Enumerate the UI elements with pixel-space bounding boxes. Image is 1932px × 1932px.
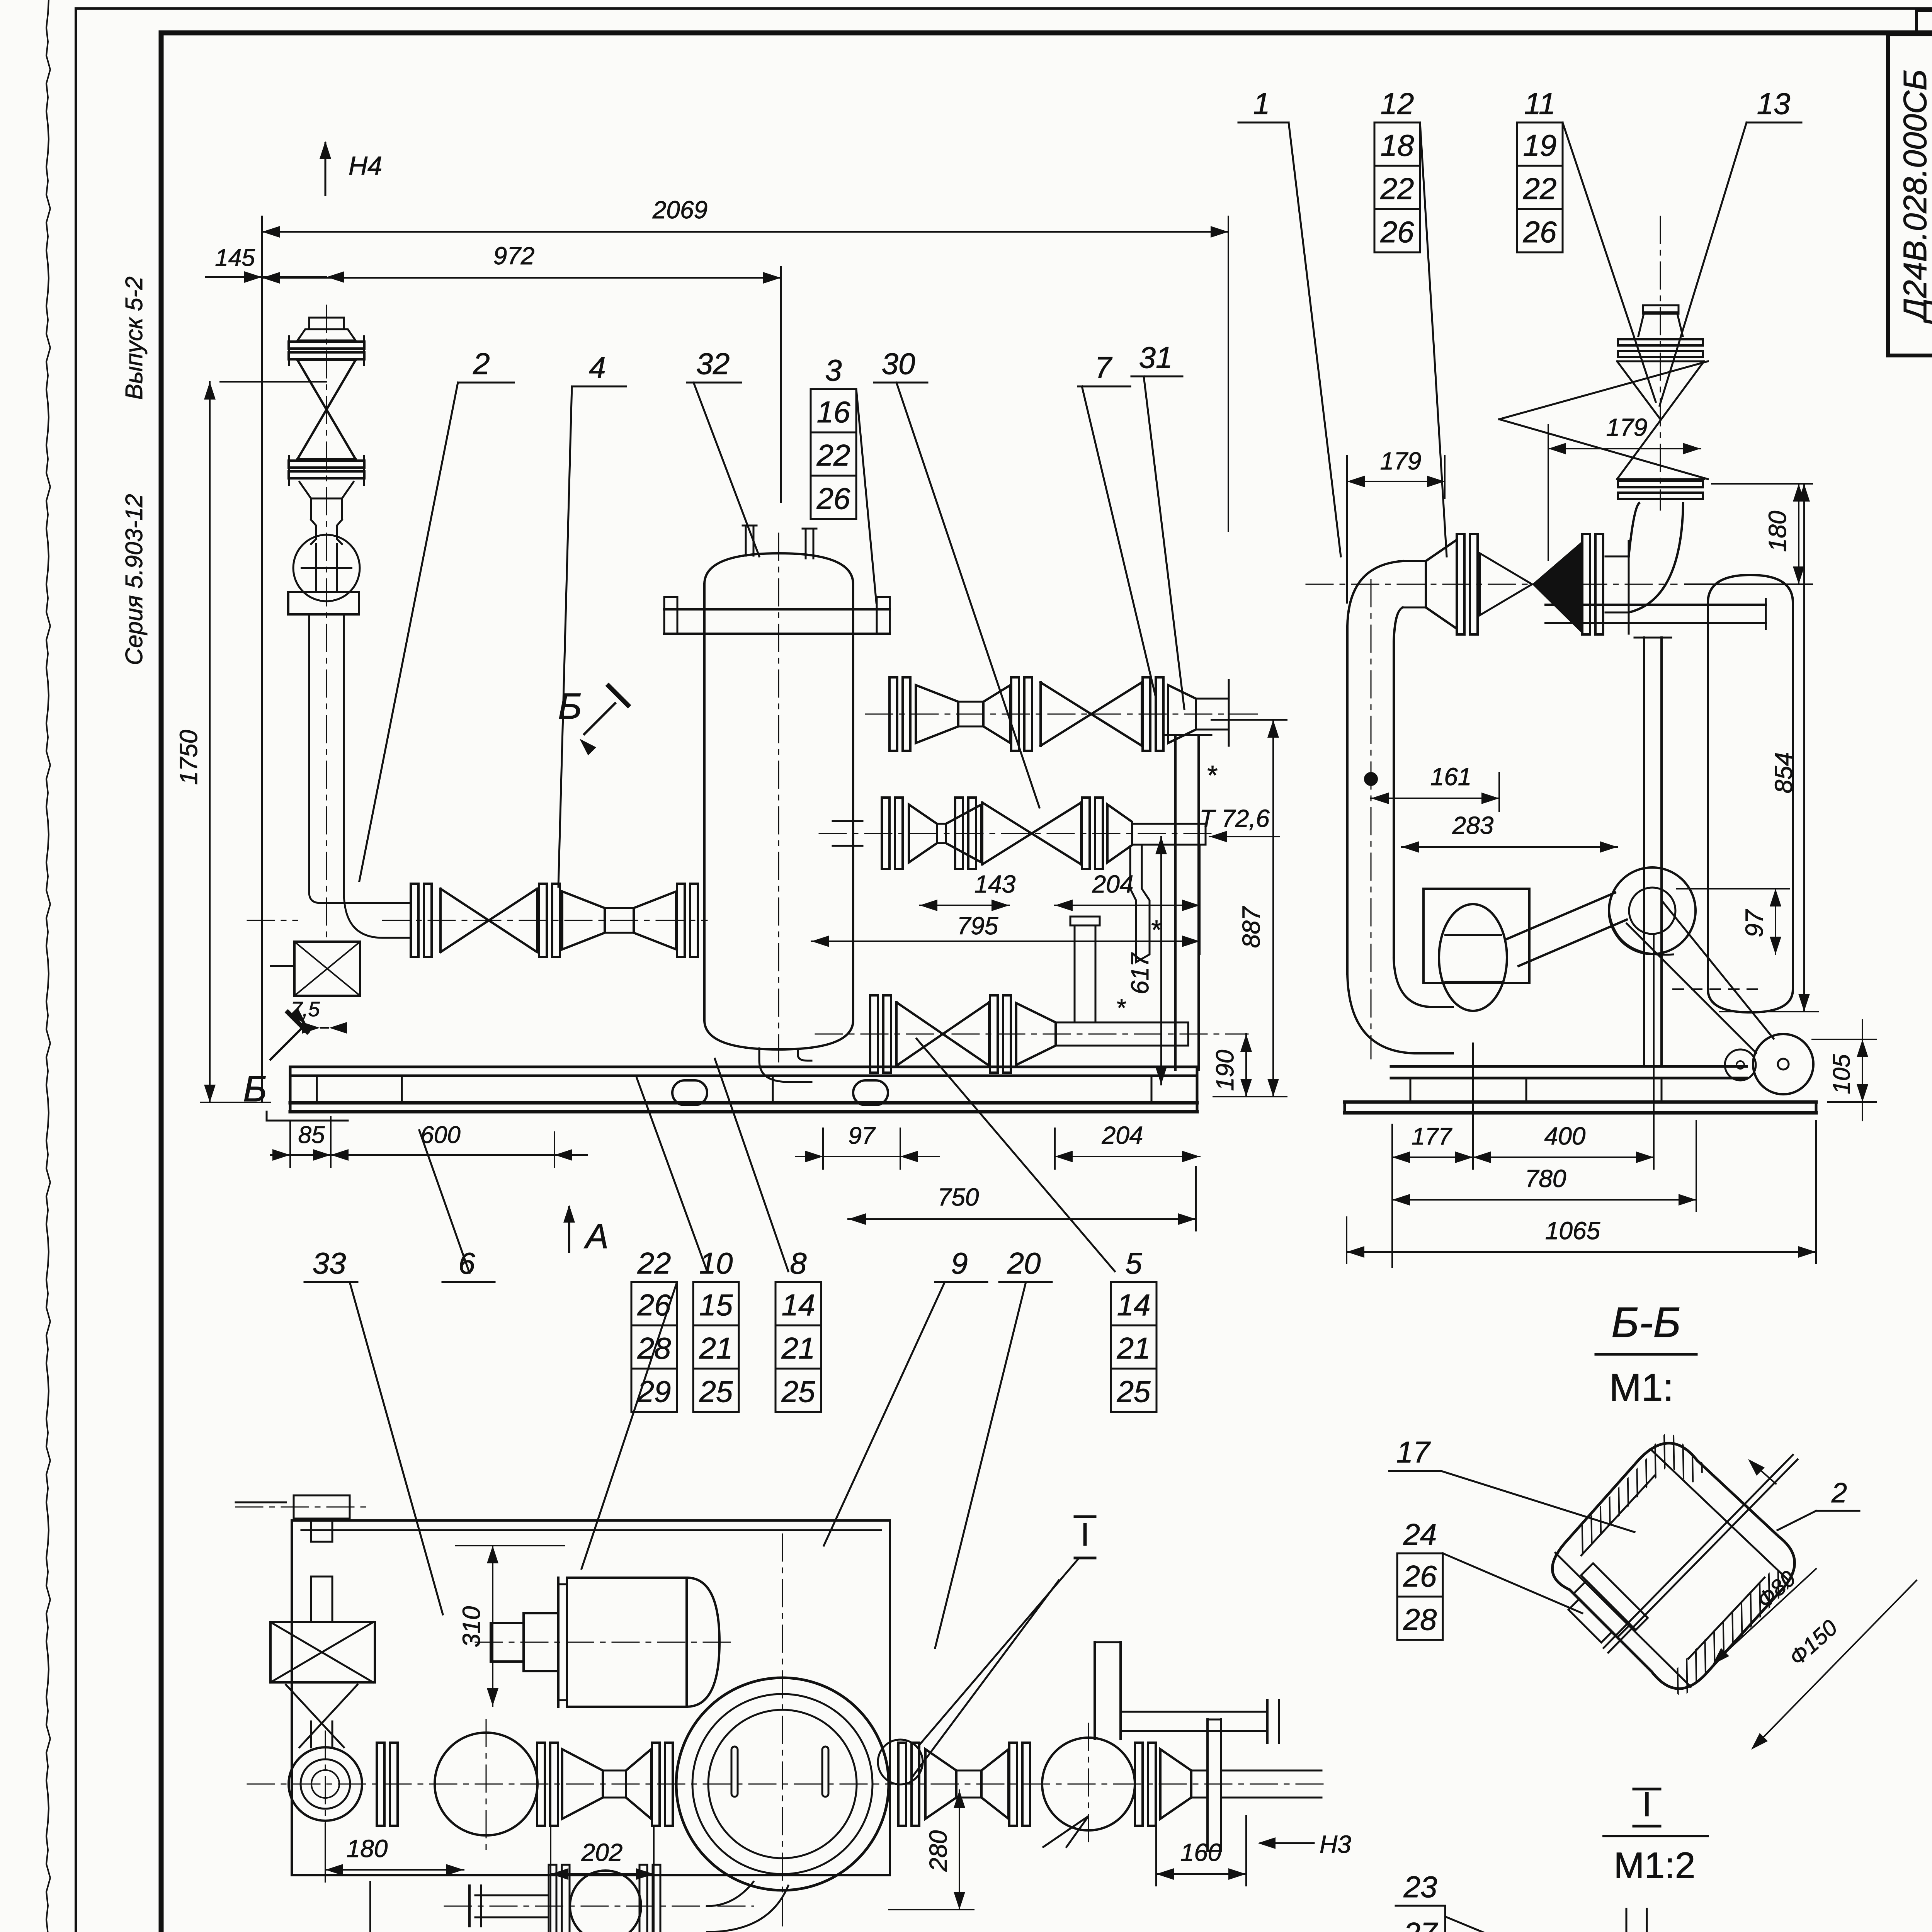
dim 795	[811, 846, 1200, 954]
dim 310 plan	[456, 1546, 564, 1706]
svg-text:Б-Б: Б-Б	[1611, 1299, 1681, 1346]
dim 160	[1156, 1816, 1246, 1886]
svg-text:12: 12	[1381, 87, 1414, 121]
callout 33	[304, 1246, 443, 1614]
svg-text:25: 25	[699, 1374, 733, 1408]
callout 1	[1238, 87, 1341, 556]
callout 17	[1389, 1435, 1634, 1532]
svg-text:161: 161	[1430, 763, 1472, 791]
section arrow B lower	[243, 1007, 307, 1109]
svg-text:*: *	[1206, 760, 1218, 790]
svg-text:Б: Б	[558, 686, 582, 727]
svg-text:22: 22	[1380, 172, 1414, 206]
svg-text:85: 85	[298, 1122, 325, 1148]
svg-text:17: 17	[1396, 1435, 1431, 1469]
svg-text:1: 1	[1253, 87, 1270, 121]
bottom run valve 5	[815, 917, 1248, 1073]
svg-text:177: 177	[1412, 1123, 1452, 1150]
svg-text:283: 283	[1452, 811, 1494, 839]
base frame view1	[267, 1067, 1197, 1121]
svg-text:2: 2	[473, 347, 490, 381]
view2 U loop pipe	[1347, 540, 1457, 1059]
scan edge left wavy line	[46, 0, 50, 1932]
sheet margin line left	[75, 9, 77, 1932]
svg-text:29: 29	[637, 1374, 671, 1408]
plan inlet flange	[247, 1731, 1325, 1832]
svg-text:26: 26	[816, 481, 850, 515]
svg-text:5: 5	[1125, 1246, 1142, 1280]
svg-text:2: 2	[1831, 1478, 1847, 1509]
callout 11 stack	[1517, 87, 1656, 402]
svg-text:25: 25	[781, 1374, 815, 1408]
dim 190	[1211, 1034, 1252, 1097]
svg-text:Т 72,6: Т 72,6	[1199, 804, 1270, 832]
plan drain branch valve 20	[444, 1865, 788, 1932]
main inlet run valve 2	[383, 884, 707, 957]
svg-text:14: 14	[1117, 1288, 1151, 1322]
svg-text:М1:2: М1:2	[1614, 1845, 1695, 1886]
dim 179 right	[1548, 413, 1701, 560]
callout 2	[359, 347, 514, 881]
svg-text:32: 32	[696, 347, 730, 381]
plan sphere valve 1	[377, 1719, 673, 1851]
svg-text:160: 160	[1180, 1838, 1222, 1866]
H3 arrow	[1258, 1830, 1351, 1858]
dim 972	[262, 242, 781, 502]
svg-text:204: 204	[1092, 870, 1134, 898]
svg-text:24: 24	[1403, 1517, 1437, 1551]
dim 7.5	[291, 998, 347, 1034]
svg-text:887: 887	[1237, 906, 1265, 948]
svg-text:19: 19	[1523, 128, 1557, 162]
svg-text:27: 27	[1403, 1916, 1438, 1932]
svg-text:310: 310	[457, 1606, 485, 1647]
svg-text:23: 23	[1403, 1870, 1437, 1904]
middle run valve 3 and 30	[819, 798, 1213, 962]
plan motor	[475, 1578, 734, 1707]
svg-text:Выпуск 5-2: Выпуск 5-2	[121, 276, 148, 400]
svg-text:97: 97	[849, 1122, 876, 1149]
detail I heading	[1604, 1785, 1708, 1886]
view2 motor and belt	[1627, 900, 1813, 1094]
plan top right branch	[1078, 1642, 1279, 1743]
svg-text:7: 7	[1095, 350, 1112, 384]
svg-text:8: 8	[790, 1246, 806, 1280]
svg-text:97: 97	[1740, 909, 1768, 937]
plan right run valve 5	[898, 1719, 1321, 1851]
view arrow A	[563, 1205, 609, 1256]
svg-text:26: 26	[1523, 215, 1557, 249]
svg-text:21: 21	[781, 1331, 815, 1365]
dim 283	[1401, 811, 1617, 853]
callout 5 stack	[917, 1039, 1156, 1412]
dim T72.6	[1199, 804, 1279, 842]
dim 750	[848, 1167, 1196, 1231]
inlet column with valve 33	[288, 305, 411, 939]
dim 177	[1392, 1043, 1473, 1267]
svg-text:26: 26	[1380, 215, 1414, 249]
plan big filter circle 9	[676, 1534, 889, 1932]
svg-text:600: 600	[420, 1122, 460, 1148]
svg-text:190: 190	[1211, 1049, 1239, 1091]
svg-text:22: 22	[816, 438, 850, 472]
callout 31	[1131, 340, 1184, 709]
dim 1065	[1347, 1121, 1816, 1264]
dim 180 plan	[325, 1824, 464, 1882]
callout 24 stack	[1397, 1517, 1582, 1640]
svg-text:Н3: Н3	[1320, 1830, 1351, 1858]
dim 85-600	[270, 1117, 587, 1167]
dim 97 lower	[796, 1122, 939, 1169]
dim 202	[551, 1828, 654, 1932]
svg-text:14: 14	[782, 1288, 815, 1322]
plan left valve 33	[236, 1495, 375, 1747]
dim 854	[1719, 484, 1818, 1012]
sheet margin line top	[76, 7, 1932, 10]
top-right stamp box	[1888, 34, 1932, 355]
svg-text:25: 25	[1117, 1374, 1151, 1408]
svg-text:143: 143	[975, 870, 1016, 898]
view2 pump	[1423, 867, 1696, 1011]
series label vypusk	[121, 276, 148, 400]
svg-text:16: 16	[817, 395, 850, 429]
svg-text:179: 179	[1606, 413, 1648, 441]
svg-text:Н4: Н4	[349, 151, 382, 180]
svg-text:11: 11	[1524, 87, 1556, 121]
dim 780	[1392, 1121, 1696, 1211]
svg-text:Д24В.028.000СБ: Д24В.028.000СБ	[1897, 70, 1932, 324]
dim 143	[920, 870, 1016, 911]
view2 stand column	[1634, 638, 1671, 1066]
dim 105	[1812, 1020, 1876, 1121]
svg-text:280: 280	[924, 1830, 952, 1872]
svg-text:179: 179	[1380, 447, 1422, 475]
upper discharge run valve 30	[866, 677, 1264, 790]
svg-text:3: 3	[825, 353, 842, 387]
dim 887	[1211, 720, 1287, 1097]
view2 tank	[1546, 575, 1793, 1012]
svg-text:22: 22	[637, 1246, 671, 1280]
view2 centerline	[1660, 216, 1661, 510]
svg-text:18: 18	[1381, 128, 1414, 162]
svg-text:9: 9	[951, 1246, 968, 1280]
svg-text:145: 145	[215, 245, 255, 271]
section B-B f80	[1713, 1566, 1816, 1665]
svg-text:180: 180	[1764, 510, 1791, 552]
corner box sheet number	[1917, 10, 1932, 34]
svg-text:972: 972	[493, 242, 535, 270]
svg-text:15: 15	[699, 1288, 733, 1322]
dim 204 mid	[1055, 870, 1200, 911]
view2 elbow	[1629, 503, 1683, 612]
svg-text:А: А	[583, 1217, 609, 1256]
dim 204 lower	[1055, 1121, 1200, 1169]
svg-text:4: 4	[589, 350, 605, 384]
dim 161	[1371, 763, 1499, 811]
callout 9	[824, 1246, 987, 1546]
detail I bolt joint	[1519, 1909, 1801, 1932]
callout 13	[1660, 87, 1801, 406]
svg-text:180: 180	[347, 1835, 388, 1862]
callout 12 stack	[1374, 87, 1447, 556]
callout 6	[419, 1130, 495, 1282]
right support column view1	[1163, 735, 1211, 1070]
callout 10 stack	[637, 1078, 739, 1412]
svg-text:1065: 1065	[1545, 1217, 1600, 1245]
svg-text:21: 21	[699, 1331, 733, 1365]
section B-B fitting	[1512, 1344, 1885, 1719]
view2 black valve 12	[1306, 534, 1677, 634]
callout 20	[935, 1246, 1052, 1648]
svg-text:26: 26	[1403, 1559, 1437, 1593]
callout 4	[558, 350, 626, 887]
dim 179 left	[1347, 447, 1445, 603]
svg-text:I: I	[1642, 1785, 1651, 1824]
section heading B-B	[1596, 1299, 1696, 1409]
svg-text:2069: 2069	[652, 196, 707, 224]
svg-text:28: 28	[1403, 1602, 1437, 1636]
section arrow B upper	[558, 686, 628, 755]
vessel 32 filter	[664, 526, 890, 1082]
support box under column	[247, 920, 360, 996]
H4 flow arrow	[320, 141, 382, 195]
svg-text:780: 780	[1525, 1165, 1566, 1192]
svg-text:1750: 1750	[175, 730, 202, 785]
series label seriya	[121, 494, 148, 665]
dim 2069	[262, 196, 1228, 1101]
callout 30	[874, 347, 1039, 808]
section B-B f150	[1751, 1580, 1917, 1750]
svg-text:105: 105	[1828, 1054, 1855, 1094]
dim 617	[1126, 837, 1167, 1085]
dim 204 plan	[370, 1882, 551, 1932]
callout 23-27	[1396, 1870, 1580, 1932]
svg-text:I: I	[1080, 1516, 1089, 1553]
dim 145	[206, 245, 344, 283]
svg-text:854: 854	[1770, 752, 1798, 794]
svg-text:33: 33	[313, 1246, 346, 1280]
dim 400	[1473, 935, 1654, 1169]
svg-text:31: 31	[1139, 340, 1173, 374]
svg-text:М1:: М1:	[1609, 1366, 1674, 1409]
svg-text:22: 22	[1523, 172, 1557, 206]
view2 base	[1345, 1066, 1816, 1113]
callout 22 stack	[582, 1246, 677, 1569]
svg-text:Б: Б	[243, 1068, 267, 1109]
svg-text:202: 202	[581, 1838, 623, 1866]
callout 3 stack	[811, 353, 876, 603]
svg-text:617: 617	[1126, 952, 1154, 994]
svg-text:750: 750	[938, 1183, 979, 1211]
svg-text:30: 30	[882, 347, 915, 381]
svg-text:*: *	[1116, 994, 1126, 1022]
dim 180	[1685, 484, 1812, 584]
dim 1750	[175, 382, 327, 1102]
svg-text:13: 13	[1757, 87, 1791, 121]
dim 97 view2	[1677, 889, 1789, 954]
svg-text:Серия 5.903-12: Серия 5.903-12	[121, 494, 148, 665]
svg-text:400: 400	[1544, 1122, 1586, 1150]
section B-B dim 2	[1748, 1459, 1859, 1530]
callout 32	[687, 347, 759, 556]
svg-text:204: 204	[1102, 1121, 1143, 1149]
svg-text:*: *	[1150, 915, 1162, 945]
callout 7	[1078, 350, 1155, 696]
plan frame rect	[292, 1520, 890, 1875]
callout 8 stack	[715, 1059, 821, 1412]
svg-text:21: 21	[1117, 1331, 1151, 1365]
svg-text:20: 20	[1007, 1246, 1041, 1280]
view2 top valve 11	[1499, 305, 1708, 499]
dim 280	[889, 1790, 974, 1910]
svg-text:795: 795	[957, 912, 998, 940]
plan section I mark	[878, 1516, 1095, 1784]
